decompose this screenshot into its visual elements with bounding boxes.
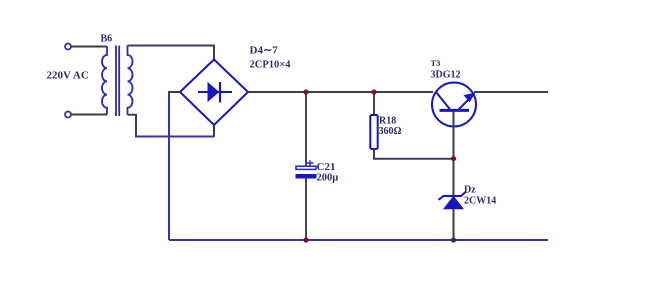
wire bridge minus vertical to ground rail [168, 92, 170, 240]
bridge rectifier D4~7 diamond [180, 60, 248, 126]
wire secondary bottom to bridge AC2 [135, 136, 214, 138]
transistor T3 circle [432, 83, 476, 127]
capacitor C21 plus plate [296, 166, 316, 169]
wire terminal bottom to transformer primary [72, 114, 108, 116]
wire secondary bottom jog [128, 115, 137, 137]
svg-text:R18: R18 [379, 116, 396, 127]
zener diode Dz triangle [444, 197, 463, 209]
svg-text:2CW14: 2CW14 [464, 196, 496, 207]
zener diode Dz cathode bar with wings [439, 192, 466, 200]
transistor emitter diagonal with arrow [458, 97, 472, 111]
wire secondary top to bridge AC1 [128, 46, 215, 60]
wire base lead down [453, 110, 455, 158]
wire bridge plus to collector rail [248, 91, 433, 93]
svg-text:Dz: Dz [464, 185, 476, 196]
wire junction to zener cathode [453, 159, 455, 196]
node at C21 tap [303, 89, 308, 94]
wire bridge minus horizontal [168, 91, 180, 93]
terminal node top (220V AC input) [65, 44, 71, 50]
wire C21 top lead [305, 92, 307, 166]
node at R18 tap [371, 89, 376, 94]
transformer B6 core [115, 46, 117, 117]
node base / R18 / zener junction [451, 156, 456, 161]
transformer B6 primary winding [102, 47, 107, 115]
svg-text:T3: T3 [431, 58, 441, 68]
wire zener anode lead [453, 209, 455, 240]
svg-text:2CP10×4: 2CP10×4 [250, 60, 292, 71]
wire C21 bottom lead [305, 179, 307, 241]
transistor base bar [440, 109, 470, 112]
node C21 to ground [303, 237, 308, 242]
svg-text:C21: C21 [317, 161, 336, 173]
wire R18 bottom lead to base node [374, 149, 454, 159]
wire emitter output rail [474, 91, 548, 93]
capacitor C21 minus plate [296, 174, 317, 179]
terminal node bottom (220V AC input) [65, 112, 71, 118]
transistor collector diagonal [436, 92, 451, 110]
capacitor plus sign [307, 160, 314, 165]
bridge diode symbol [198, 91, 232, 93]
svg-text:D4∼7: D4∼7 [250, 45, 279, 57]
svg-text:220V AC: 220V AC [47, 70, 89, 82]
ground rail bottom [169, 239, 548, 241]
svg-text:200µ: 200µ [317, 173, 339, 184]
svg-text:3DG12: 3DG12 [431, 70, 461, 81]
wire R18 top lead [373, 92, 375, 115]
svg-text:360Ω: 360Ω [379, 126, 402, 137]
transformer B6 secondary winding [128, 46, 133, 115]
svg-text:B6: B6 [101, 34, 113, 45]
resistor R18 body [370, 115, 377, 149]
wire terminal top to transformer primary [72, 46, 108, 48]
wire bridge AC2 stub [213, 125, 215, 137]
node zener to ground [451, 237, 456, 242]
